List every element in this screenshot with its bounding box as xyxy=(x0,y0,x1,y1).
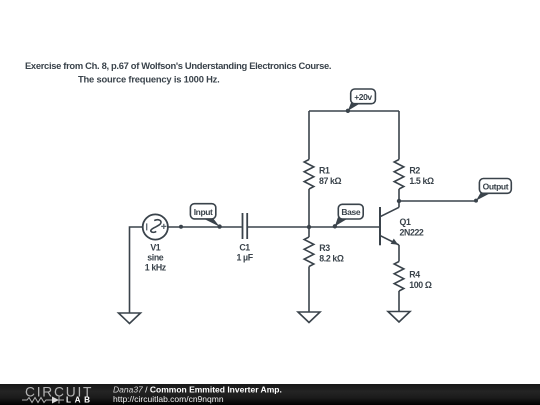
svg-text:100 Ω: 100 Ω xyxy=(409,280,432,290)
svg-text:LAB: LAB xyxy=(66,396,94,405)
svg-text:sine: sine xyxy=(147,253,164,263)
svg-text:2N222: 2N222 xyxy=(400,228,424,238)
svg-text:R1: R1 xyxy=(319,166,330,176)
svg-text:Output: Output xyxy=(483,182,509,192)
svg-text:V1: V1 xyxy=(150,243,160,253)
svg-text:R4: R4 xyxy=(409,270,420,280)
svg-text:1 kHz: 1 kHz xyxy=(145,263,167,273)
svg-text:+20v: +20v xyxy=(354,92,372,102)
svg-text:Q1: Q1 xyxy=(400,217,411,227)
svg-text:Exercise from Ch. 8, p.67 of W: Exercise from Ch. 8, p.67 of Wolfson's U… xyxy=(25,60,331,71)
svg-text:1 µF: 1 µF xyxy=(237,253,254,263)
svg-text:Input: Input xyxy=(194,207,213,217)
svg-text:http://circuitlab.com/cn9nqmn: http://circuitlab.com/cn9nqmn xyxy=(113,394,224,404)
svg-text:C1: C1 xyxy=(239,243,250,253)
svg-text:R2: R2 xyxy=(409,166,420,176)
svg-text:Base: Base xyxy=(341,207,360,217)
svg-text:Dana37 / Common Emmited Invert: Dana37 / Common Emmited Inverter Amp. xyxy=(113,385,282,395)
svg-text:1.5 kΩ: 1.5 kΩ xyxy=(409,176,434,186)
svg-text:R3: R3 xyxy=(319,243,330,253)
svg-text:87 kΩ: 87 kΩ xyxy=(319,176,342,186)
svg-text:8.2 kΩ: 8.2 kΩ xyxy=(319,254,344,264)
svg-text:The source frequency is 1000 H: The source frequency is 1000 Hz. xyxy=(78,74,220,85)
